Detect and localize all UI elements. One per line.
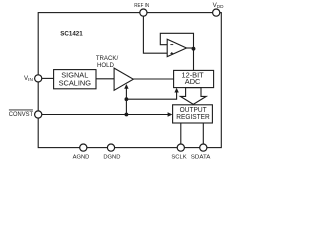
svg-text:VIN: VIN: [24, 75, 33, 82]
svg-text:SDATA: SDATA: [191, 154, 211, 160]
svg-text:SC1421: SC1421: [60, 31, 83, 38]
svg-text:TRACK/: TRACK/: [96, 55, 119, 62]
svg-text:CONVST: CONVST: [9, 111, 33, 118]
svg-text:SCLK: SCLK: [171, 154, 186, 160]
svg-text:SCALING: SCALING: [59, 78, 92, 87]
svg-text:ADC: ADC: [185, 77, 201, 86]
svg-text:REF IN: REF IN: [134, 3, 149, 9]
svg-text:REGISTER: REGISTER: [176, 112, 209, 121]
svg-text:AGND: AGND: [73, 154, 90, 160]
svg-text:VDD: VDD: [213, 2, 225, 9]
svg-text:DGND: DGND: [103, 154, 120, 160]
svg-text:HOLD: HOLD: [97, 62, 115, 69]
